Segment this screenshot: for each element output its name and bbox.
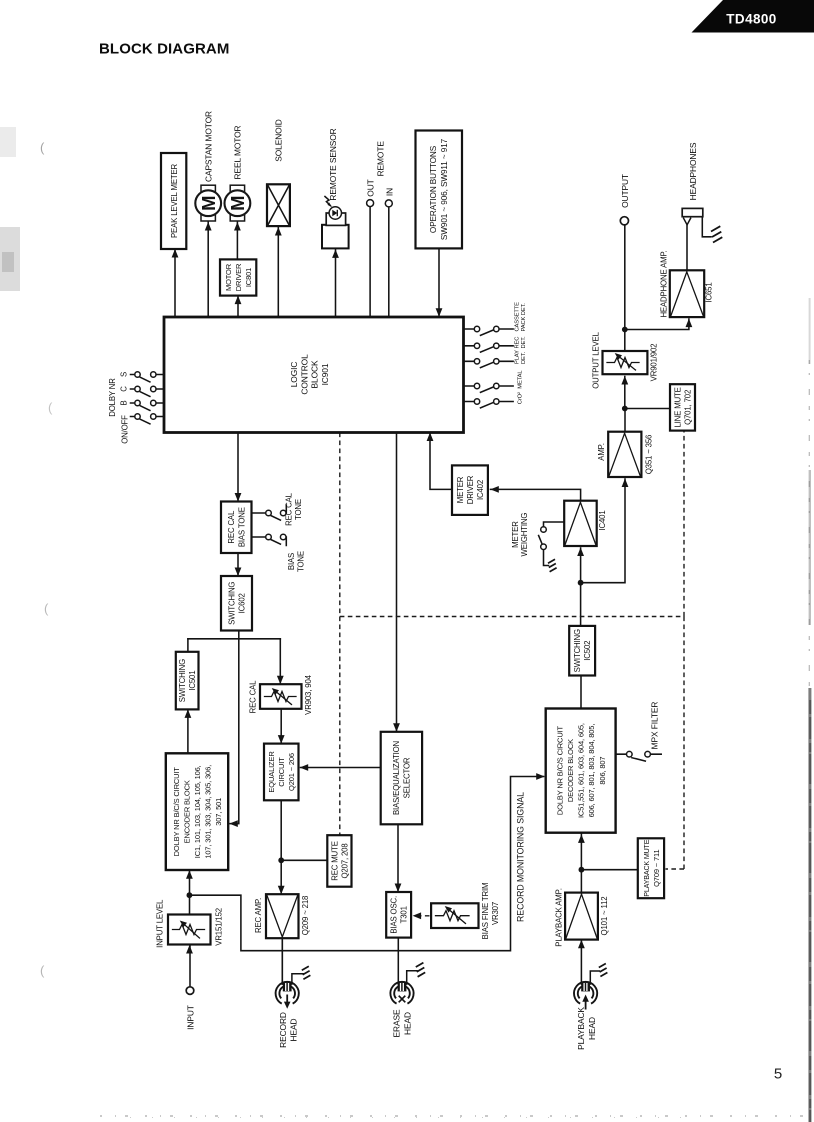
- wire remote sensor to logic: [335, 250, 337, 317]
- svg-text:REC MUTE: REC MUTE: [330, 841, 339, 881]
- svg-text:CONTROL: CONTROL: [299, 354, 309, 395]
- svg-text:BLOCK: BLOCK: [310, 360, 320, 388]
- svg-text:DET.: DET.: [521, 351, 527, 364]
- wire input terminal to input level: [189, 946, 191, 987]
- svg-text:ENCODER BLOCK: ENCODER BLOCK: [182, 780, 191, 843]
- svg-text:PLAYBACK: PLAYBACK: [576, 1007, 586, 1050]
- logic control block IC901: [164, 317, 464, 433]
- svg-text:MOTOR: MOTOR: [224, 263, 233, 291]
- svg-text:HEAD: HEAD: [587, 1017, 597, 1040]
- svg-text:IC602: IC602: [238, 593, 247, 613]
- svg-text:VR307: VR307: [491, 902, 500, 925]
- wire amp to output level line mute junction: [625, 377, 670, 432]
- svg-text:PLAY: PLAY: [515, 350, 521, 364]
- svg-text:CIRCUIT: CIRCUIT: [277, 757, 286, 787]
- svg-text:BIAS TONE: BIAS TONE: [237, 507, 246, 547]
- svg-text:REMOTE: REMOTE: [375, 141, 385, 177]
- wire equalizer to junction to rec amp: [280, 800, 282, 894]
- record head: [276, 938, 311, 1009]
- svg-text:LOGIC: LOGIC: [289, 362, 299, 388]
- detector switches right of logic: [464, 326, 514, 408]
- bias osc T301: [386, 892, 411, 938]
- motor driver IC801: [220, 259, 256, 295]
- bias fine trim pot VR307: [431, 903, 478, 928]
- headphone amp IC651: [670, 270, 704, 317]
- wire junction to headphone amp: [625, 319, 689, 330]
- meter driver IC402: [452, 465, 488, 515]
- svg-text:INPUT: INPUT: [186, 1005, 196, 1030]
- svg-text:IC51,551, 601, 603, 604, 605,: IC51,551, 601, 603, 604, 605,: [577, 723, 586, 818]
- wire junction to playback mute: [581, 869, 637, 871]
- wire headphone amp to jack: [686, 226, 688, 271]
- svg-text:DET.: DET.: [521, 336, 527, 349]
- svg-text:PEAK LEVEL METER: PEAK LEVEL METER: [170, 163, 179, 238]
- line mute Q701,702: [670, 384, 695, 430]
- wire logic to rec cal bias tone: [237, 433, 239, 502]
- svg-text:M: M: [198, 195, 219, 210]
- svg-text:T301: T301: [400, 906, 409, 923]
- svg-text:VR151/152: VR151/152: [215, 908, 224, 946]
- dolby nr decoder block: [546, 709, 616, 833]
- svg-text:SWITCHING: SWITCHING: [573, 629, 582, 672]
- solenoid: [267, 184, 290, 226]
- wire solenoid to logic: [277, 226, 279, 317]
- svg-text:Q351 ~ 356: Q351 ~ 356: [644, 435, 653, 474]
- svg-text:HEADPHONES: HEADPHONES: [688, 142, 698, 200]
- svg-text:INPUT LEVEL: INPUT LEVEL: [155, 899, 164, 948]
- svg-text:SWITCHING: SWITCHING: [228, 582, 237, 625]
- svg-text:DOLBY NR B/C/S CIRCUIT: DOLBY NR B/C/S CIRCUIT: [555, 725, 564, 815]
- erase head: [390, 963, 425, 1004]
- wire capstan motor to logic: [207, 221, 209, 317]
- switch rec cal tone: [252, 505, 287, 520]
- wire junction to amp Q351: [581, 479, 625, 583]
- svg-text:AMP.: AMP.: [597, 443, 606, 460]
- svg-text:BLOCK DIAGRAM: BLOCK DIAGRAM: [99, 41, 229, 58]
- svg-text:IC1, 101, 103, 104, 105, 106,: IC1, 101, 103, 104, 105, 106,: [193, 765, 202, 858]
- svg-text:BIAS OSC.: BIAS OSC.: [390, 896, 399, 934]
- svg-text:MPX FILTER: MPX FILTER: [650, 702, 660, 750]
- wire junction to rec mute: [281, 859, 327, 861]
- svg-text:RECORD MONITORING SIGNAL: RECORD MONITORING SIGNAL: [516, 792, 526, 922]
- svg-text:RECORD: RECORD: [278, 1012, 288, 1048]
- wire tee to switching IC501: [187, 639, 189, 652]
- svg-text:(: (: [44, 601, 49, 616]
- wire bias osc to erase head: [397, 938, 399, 984]
- svg-text:OPERATION BUTTONS: OPERATION BUTTONS: [429, 145, 438, 233]
- svg-text:BIAS/EQUALIZATION: BIAS/EQUALIZATION: [392, 741, 401, 815]
- svg-text:B: B: [120, 400, 129, 405]
- wire input level to encoder: [189, 871, 191, 915]
- svg-text:DOLBY NR B/C/S CIRCUIT: DOLBY NR B/C/S CIRCUIT: [172, 767, 181, 857]
- reel motor M: [225, 185, 251, 221]
- svg-text:Q207, 208: Q207, 208: [340, 843, 349, 878]
- wire encoder to switching IC501: [187, 709, 189, 753]
- wire reel motor to motor driver: [236, 221, 238, 259]
- operation buttons SW901-906 SW911-917: [416, 131, 463, 249]
- svg-text:ERASE: ERASE: [392, 1009, 402, 1037]
- svg-text:(: (: [40, 963, 45, 978]
- svg-text:Q701, 702: Q701, 702: [684, 390, 693, 425]
- wire playback head to playback amp: [580, 940, 582, 984]
- wire OUT terminal to logic: [369, 207, 371, 317]
- svg-text:VR901/902: VR901/902: [650, 344, 659, 382]
- dolby nr selector switches left: [131, 372, 165, 424]
- svg-text:METAL: METAL: [518, 370, 524, 389]
- wire peak level meter to logic: [174, 249, 176, 317]
- svg-text:Q709 ~ 711: Q709 ~ 711: [652, 850, 661, 887]
- peak level meter: [161, 153, 186, 249]
- svg-text:TONE: TONE: [296, 551, 305, 572]
- svg-text:IC401: IC401: [598, 510, 607, 530]
- svg-text:IC801: IC801: [244, 268, 253, 287]
- playback mute Q709-711: [638, 838, 664, 898]
- terminal OUT: [367, 200, 374, 207]
- svg-text:SELECTOR: SELECTOR: [403, 757, 412, 798]
- dashed mute control line from logic: [339, 433, 341, 836]
- svg-text:IC651: IC651: [705, 282, 714, 302]
- svg-text:REC AMP.: REC AMP.: [254, 898, 263, 933]
- svg-text:EQUALIZER: EQUALIZER: [267, 751, 276, 793]
- svg-text:IC502: IC502: [583, 641, 592, 661]
- switching IC602: [221, 576, 252, 631]
- svg-text:REC CAL: REC CAL: [248, 680, 257, 714]
- svg-text:OUTPUT: OUTPUT: [620, 174, 630, 208]
- svg-text:DOLBY NR: DOLBY NR: [108, 378, 117, 417]
- svg-text:METER: METER: [456, 476, 465, 503]
- wire rec cal bias tone to switching IC602: [237, 553, 239, 576]
- svg-text:DRIVER: DRIVER: [466, 475, 475, 504]
- svg-text:REC: REC: [515, 337, 521, 349]
- svg-text:LINE MUTE: LINE MUTE: [674, 387, 683, 427]
- wire logic to bias-eq selector: [396, 433, 398, 732]
- svg-text:REMOTE SENSOR: REMOTE SENSOR: [328, 128, 338, 200]
- svg-text:SW901 ~ 906, SW911 ~ 917: SW901 ~ 906, SW911 ~ 917: [440, 138, 449, 240]
- node junction dots: [187, 892, 193, 898]
- wire jack sleeve to ground: [702, 217, 711, 237]
- svg-text:IC402: IC402: [476, 480, 485, 500]
- arrowheads: [172, 249, 179, 258]
- svg-text:CASSETTE: CASSETTE: [515, 302, 521, 332]
- wire switching IC602 output tee: [188, 631, 280, 639]
- svg-text:806, 807: 806, 807: [598, 757, 607, 785]
- svg-text:C: C: [120, 386, 129, 392]
- svg-text:METER: METER: [511, 521, 520, 548]
- wire motor driver to logic: [237, 296, 239, 317]
- rec amp Q209-218: [266, 894, 299, 938]
- output terminal: [620, 217, 628, 225]
- dashed mute branch to line mute and playback mute: [340, 431, 684, 869]
- remote sensor: [322, 196, 349, 248]
- svg-text:Q209 ~ 218: Q209 ~ 218: [301, 896, 310, 935]
- svg-text:TD4800: TD4800: [726, 12, 776, 27]
- svg-text:DECODER BLOCK: DECODER BLOCK: [566, 739, 575, 802]
- svg-text:HEAD: HEAD: [402, 1012, 412, 1035]
- svg-text:CAPSTAN MOTOR: CAPSTAN MOTOR: [204, 111, 214, 182]
- svg-text:BIAS FINE TRIM: BIAS FINE TRIM: [481, 883, 490, 940]
- svg-text:PLAYBACK AMP.: PLAYBACK AMP.: [554, 888, 563, 946]
- svg-text:REC CAL: REC CAL: [227, 510, 236, 544]
- svg-text:IC501: IC501: [188, 671, 197, 691]
- capstan motor M: [195, 185, 221, 221]
- svg-text:WEIGHTING: WEIGHTING: [520, 513, 529, 557]
- svg-text:HEADPHONE AMP.: HEADPHONE AMP.: [659, 250, 668, 317]
- playback amp Q101-112: [565, 893, 598, 940]
- dolby nr encoder block: [166, 753, 228, 870]
- svg-text:Q101 ~ 112: Q101 ~ 112: [600, 897, 609, 936]
- output level pot VR901/902: [603, 351, 648, 374]
- svg-text:SOLENOID: SOLENOID: [274, 119, 284, 162]
- rec mute Q207,208: [327, 835, 351, 887]
- input terminal: [186, 987, 194, 995]
- svg-text:SWITCHING: SWITCHING: [178, 659, 187, 702]
- amp IC401: [564, 501, 597, 546]
- wire IC401 to meter driver: [491, 489, 581, 500]
- wire playback amp to junction to decoder: [580, 834, 582, 893]
- svg-text:S: S: [120, 372, 129, 377]
- svg-text:VR903, 904: VR903, 904: [304, 674, 313, 714]
- svg-text:DRIVER: DRIVER: [234, 263, 243, 291]
- svg-text:PLAYBACK MUTE: PLAYBACK MUTE: [643, 839, 651, 896]
- svg-text:OUT: OUT: [366, 179, 376, 196]
- svg-text:BIAS: BIAS: [287, 553, 296, 570]
- terminal IN: [385, 200, 392, 207]
- svg-text:107, 301, 303, 304, 305, 306,: 107, 301, 303, 304, 305, 306,: [204, 765, 213, 859]
- wire rec amp to record head: [281, 938, 283, 984]
- wire decoder to switching IC502: [580, 676, 582, 709]
- model banner TD4800: [692, 0, 814, 33]
- equalizer circuit Q201-206: [264, 744, 299, 801]
- svg-text:CrO²: CrO²: [518, 392, 524, 404]
- wire record monitoring signal: [189, 777, 543, 951]
- wire rec cal pot to equalizer: [280, 709, 282, 744]
- svg-text:(: (: [40, 140, 45, 155]
- wire selector to bias osc: [397, 824, 399, 892]
- svg-text:REC CAL: REC CAL: [285, 492, 294, 526]
- svg-text:Q201 ~ 206: Q201 ~ 206: [287, 753, 296, 791]
- switching IC502: [569, 626, 595, 676]
- wire IC502 to junction to IC401: [580, 548, 582, 626]
- wire operation buttons to logic: [438, 248, 440, 316]
- wire output level to output terminal: [624, 225, 626, 351]
- svg-text:HEAD: HEAD: [289, 1019, 299, 1042]
- switching IC501: [176, 652, 199, 710]
- rec cal pot VR903,904: [260, 684, 302, 709]
- svg-text:5: 5: [774, 1066, 782, 1083]
- wire IC602 to dolby encoder right edge: [230, 639, 239, 824]
- amp Q351-356: [608, 432, 641, 477]
- svg-text:PACK DET.: PACK DET.: [521, 303, 527, 332]
- meter weighting switch: [539, 522, 565, 572]
- wire selector to equalizer: [301, 767, 381, 769]
- wire meter driver to logic: [430, 433, 452, 490]
- dashed bias fine trim to bias osc: [415, 915, 430, 917]
- svg-text:M: M: [227, 195, 248, 210]
- rec cal bias tone block: [221, 502, 252, 554]
- bias/equalization selector: [381, 732, 422, 825]
- switch bias tone: [252, 534, 287, 545]
- input level pot VR151/152: [168, 915, 211, 945]
- svg-text:OUTPUT LEVEL: OUTPUT LEVEL: [592, 331, 601, 388]
- wire IN terminal to logic: [388, 207, 390, 317]
- svg-text:606, 607, 801, 803, 804, 805,: 606, 607, 801, 803, 804, 805,: [587, 724, 596, 818]
- svg-text:307, 501: 307, 501: [214, 798, 223, 826]
- wire tee to rec cal pot: [279, 639, 281, 684]
- playback head: [574, 964, 607, 1010]
- svg-text:(: (: [48, 400, 53, 415]
- headphones jack: [682, 208, 722, 242]
- svg-text:REEL MOTOR: REEL MOTOR: [233, 125, 243, 179]
- svg-text:IN: IN: [384, 188, 394, 196]
- svg-text:ON/OFF: ON/OFF: [121, 415, 130, 444]
- svg-text:TONE: TONE: [294, 499, 303, 520]
- mpx filter switch: [616, 751, 662, 761]
- svg-text:IC901: IC901: [320, 363, 330, 385]
